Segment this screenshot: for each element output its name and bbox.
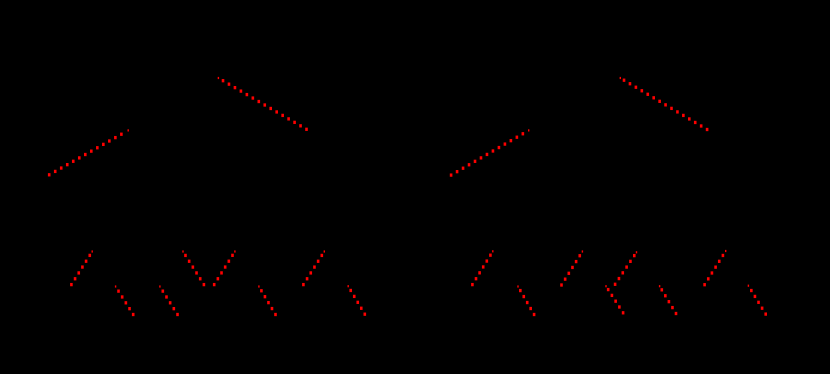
left tree dashed edge Ls1 (70, 250, 93, 286)
right tree dashed edge RU1 (450, 129, 530, 176)
left tree dashed edge Ls2 (115, 285, 135, 316)
right tree dashed edge RU2 (620, 77, 709, 131)
left tree dashed edge Ls4 (182, 250, 205, 286)
right tree dashed edge Rs5 (614, 251, 637, 286)
right tree dashed edge Rs3 (560, 250, 583, 286)
right tree dashed edge Rs1 (471, 250, 493, 286)
left tree dashed edge Ls7 (302, 250, 325, 286)
left tree dashed edge LU1 (48, 129, 129, 176)
left tree dashed edge Ls5 (213, 250, 236, 286)
right tree dashed edge Rs4 (605, 285, 624, 314)
left tree dashed edge Ls3 (159, 285, 179, 316)
left tree dashed edge Ls8 (348, 285, 367, 316)
right tree dashed edge Rs2 (517, 285, 535, 316)
right tree dashed edge Rs6 (659, 285, 677, 315)
left tree dashed edge LU2 (218, 77, 308, 131)
right tree dashed edge Rs7 (703, 250, 726, 286)
right tree dashed edge Rs8 (748, 285, 767, 316)
left tree dashed edge Ls6 (258, 285, 277, 316)
